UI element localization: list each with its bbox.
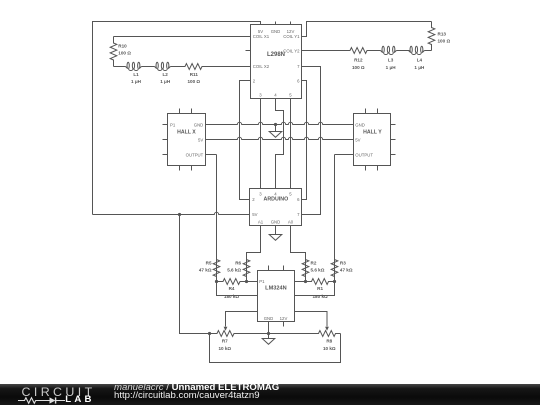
node: gnd junction — [267, 332, 270, 335]
pin stub — [191, 166, 193, 171]
ground — [262, 339, 275, 345]
wire: R1/R2 junction to LM324N right pin1 — [295, 281, 306, 283]
wire: HALL Y OUTPUT down to R3 — [335, 154, 354, 156]
svg-text:5.6 kΩ: 5.6 kΩ — [227, 268, 241, 273]
pin stub — [391, 124, 396, 126]
wire: R3 junction feedback to LM324N right pin2 — [295, 282, 335, 296]
wire: L298N pin4 to Arduino pin4 (jog) — [276, 99, 284, 189]
svg-text:P1: P1 — [259, 279, 265, 284]
node — [333, 280, 336, 283]
wire: 5V rail HALL X to HALL Y — [206, 137, 354, 139]
pin stub — [163, 139, 168, 141]
wire: GND rail HALL X to HALL Y — [206, 122, 354, 124]
resistor R1 — [306, 279, 335, 285]
ground symbol (Arduino GND) — [275, 226, 277, 235]
svg-text:P1: P1 — [170, 123, 176, 128]
svg-text:5V: 5V — [355, 138, 360, 143]
wiper arrow R7 — [224, 327, 228, 331]
wiper arrow R8 — [325, 327, 329, 331]
svg-text:R6: R6 — [235, 260, 241, 265]
svg-text:5.6 kΩ: 5.6 kΩ — [311, 268, 325, 273]
svg-text:A0: A0 — [288, 219, 294, 224]
svg-text:180 kΩ: 180 kΩ — [313, 294, 328, 299]
inductor L3 — [381, 46, 397, 54]
resistor R5 — [213, 241, 220, 282]
svg-text:12V: 12V — [280, 316, 288, 321]
resistor R3 — [331, 241, 338, 282]
svg-text:LM324N: LM324N — [265, 286, 286, 292]
svg-text:OUTPUT: OUTPUT — [186, 153, 204, 158]
svg-text:L3: L3 — [388, 58, 394, 63]
svg-text:COIL Y2: COIL Y2 — [283, 49, 300, 54]
svg-text:100 Ω: 100 Ω — [438, 39, 451, 44]
wire: 5V rail to Arduino 5V pin — [93, 212, 250, 214]
ground — [269, 235, 282, 241]
wire: L298N pin7 to Arduino pin7 — [302, 67, 321, 215]
wire: L298N pin2 to Arduino pin2 — [240, 81, 251, 200]
svg-text:R8: R8 — [326, 338, 332, 343]
node: 5V junction — [178, 213, 181, 216]
node — [245, 280, 248, 283]
svg-text:R3: R3 — [340, 260, 346, 265]
svg-text:47 kΩ: 47 kΩ — [340, 268, 353, 273]
wire: COIL Y2 to R12 — [302, 50, 350, 52]
svg-text:GND: GND — [264, 316, 274, 321]
svg-text:100 Ω: 100 Ω — [118, 51, 131, 56]
node: pot row left — [208, 332, 211, 335]
pin stub — [365, 109, 367, 114]
resistor R4 — [217, 279, 247, 285]
pin stub 12V — [290, 22, 292, 25]
resistor R10 — [110, 37, 117, 67]
svg-text:COIL Y1: COIL Y1 — [283, 34, 300, 39]
pin stub — [377, 109, 379, 114]
svg-text:47 kΩ: 47 kΩ — [199, 268, 212, 273]
wire: Arduino A1 to R6 — [247, 226, 261, 282]
pin stub (nc) — [246, 50, 251, 52]
svg-text:R7: R7 — [222, 338, 228, 343]
wire: junction down to pot row — [180, 215, 210, 334]
pin stub — [283, 266, 285, 271]
svg-text:HALL X: HALL X — [177, 129, 196, 135]
svg-text:180 kΩ: 180 kΩ — [224, 294, 239, 299]
wire — [396, 50, 409, 52]
svg-text:HALL Y: HALL Y — [363, 129, 382, 135]
pin stub — [179, 109, 181, 114]
svg-text:100 Ω: 100 Ω — [352, 65, 365, 70]
svg-text:A1: A1 — [258, 219, 264, 224]
svg-text:10 kΩ: 10 kΩ — [323, 346, 336, 351]
svg-text:GND: GND — [194, 123, 204, 128]
svg-text:COIL X1: COIL X1 — [253, 34, 270, 39]
pin stub — [268, 266, 270, 271]
wire: left chain baseline — [114, 66, 126, 68]
op-chip U1 L298N — [251, 25, 302, 99]
wire: R4/R6 junction to LM324N pin1 — [247, 281, 258, 283]
wire — [368, 50, 381, 52]
svg-text:GND: GND — [271, 29, 281, 34]
wire: pot row middle — [242, 333, 314, 335]
hall sensor HALL X — [168, 114, 206, 166]
wire: COIL Y1 riser to top-right rail — [302, 22, 432, 37]
svg-text:R5: R5 — [206, 260, 212, 265]
wire: Arduino A0 to R2 — [291, 226, 306, 282]
svg-text:OUTPUT: OUTPUT — [355, 153, 373, 158]
mcu ARDUINO — [250, 189, 302, 226]
op-amp LM324N — [258, 271, 295, 322]
svg-text:R11: R11 — [190, 72, 199, 77]
ground — [269, 132, 282, 138]
wire — [170, 66, 184, 68]
wire: bottom loop — [210, 334, 341, 363]
wire: LM324N right pin3 to R8 wiper — [295, 312, 328, 327]
potentiometer R7 — [210, 331, 242, 337]
ground symbol (rail) — [275, 125, 277, 132]
wire: LM324N GND stub — [268, 322, 270, 339]
svg-text:COIL X2: COIL X2 — [253, 64, 270, 69]
svg-text:ARDUINO: ARDUINO — [264, 196, 289, 202]
svg-text:1 μH: 1 μH — [414, 65, 425, 70]
wire: R10 top to COIL X1 — [114, 36, 251, 38]
node — [215, 280, 218, 283]
svg-text:L2: L2 — [163, 72, 169, 77]
svg-text:10 kΩ: 10 kΩ — [218, 346, 231, 351]
LM324N 12V open stub — [283, 322, 285, 327]
CircuitLab logo — [22, 386, 96, 398]
resistor R2 — [302, 253, 309, 282]
wire: L298N pin6 to Arduino pin6 — [302, 81, 307, 200]
wire: L298N 5V to top-left rail — [93, 22, 261, 215]
wire: R11 to COIL X2 — [203, 66, 251, 68]
resistor R13 — [428, 22, 435, 51]
svg-text:L4: L4 — [417, 58, 423, 63]
pin stub — [191, 109, 193, 114]
wire: HALL X OUTPUT down to R5 — [206, 154, 217, 156]
wire — [141, 66, 154, 68]
pin stub — [179, 166, 181, 171]
node — [304, 280, 307, 283]
wire: LM324N pin3 to R7 wiper — [226, 312, 258, 327]
svg-text:GND: GND — [355, 123, 365, 128]
pin stub — [391, 139, 396, 141]
svg-text:1 μH: 1 μH — [386, 65, 397, 70]
pin stub — [163, 154, 168, 156]
svg-text:R12: R12 — [354, 58, 363, 63]
svg-text:100 Ω: 100 Ω — [187, 79, 200, 84]
potentiometer R8 — [314, 331, 341, 337]
pin stub — [163, 124, 168, 126]
wire: R5 junction feedback to LM324N pin2 — [217, 282, 258, 296]
pin stub GND — [275, 22, 277, 25]
svg-text:R1: R1 — [317, 286, 323, 291]
node: gnd tap — [274, 123, 277, 126]
svg-text:1 μH: 1 μH — [131, 79, 142, 84]
svg-text:R2: R2 — [311, 260, 317, 265]
svg-text:R10: R10 — [118, 43, 127, 48]
pin stub — [377, 166, 379, 171]
svg-text:1 μH: 1 μH — [160, 79, 171, 84]
svg-text:R13: R13 — [438, 31, 447, 36]
wire: L298N pin3 to Arduino pin3 — [260, 99, 262, 189]
hall sensor HALL Y — [354, 114, 391, 166]
wire: L4 to R13 bottom — [424, 50, 431, 52]
resistor R6 — [243, 253, 250, 282]
svg-text:5V: 5V — [252, 212, 257, 217]
inductor L1 — [126, 62, 142, 70]
resistor R11 — [185, 64, 203, 70]
pin stub — [391, 154, 396, 156]
pin stub — [365, 166, 367, 171]
svg-text:L1: L1 — [133, 72, 139, 77]
svg-text:5V: 5V — [198, 138, 203, 143]
inductor L4 — [409, 46, 425, 54]
inductor L2 — [155, 62, 171, 70]
svg-text:GND: GND — [271, 219, 281, 224]
svg-text:R4: R4 — [229, 286, 235, 291]
resistor R12 — [350, 48, 368, 54]
wire: L298N pin5 to Arduino pin5 — [290, 99, 292, 189]
